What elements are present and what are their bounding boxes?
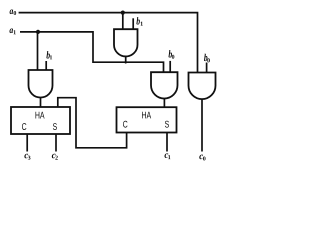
label c2: [52, 154, 58, 160]
label c0: [199, 155, 205, 161]
AND gate U2 (a0·b1): [114, 29, 138, 56]
half adder HA2 box: [117, 107, 177, 132]
wire a0 horizontal then down to far-right AND gate: [19, 13, 198, 73]
label b1 (left gate): [46, 51, 52, 59]
wire b1 stub into U2: [132, 18, 134, 29]
wire HA2 S output: [166, 133, 168, 152]
label b0 (right gate): [204, 54, 210, 63]
label c1: [165, 153, 171, 159]
wire b0 stub into U4: [206, 63, 208, 73]
AND gate U1 (a1·b1): [29, 70, 53, 98]
node T-junction: [125, 61, 127, 63]
wire HA1 S output: [55, 134, 57, 152]
wire HA1 C output: [26, 134, 28, 152]
wire U2 output down to routing line: [125, 56, 127, 63]
wire U3 output to HA2: [163, 99, 165, 108]
wire a1 branch down to U1 input: [37, 32, 39, 70]
node junction dot on a1 line: [36, 30, 40, 34]
half adder HA1 box: [11, 107, 70, 134]
wire U4 output to c0: [201, 99, 203, 151]
AND gate U4 (a0·b0): [189, 73, 216, 100]
label c3: [24, 154, 30, 160]
wire a1 horizontal, down, right, into U3 input: [20, 32, 164, 72]
AND gate U3 (a1·b0): [151, 72, 178, 98]
label a1: [9, 29, 15, 35]
label b0 (middle gate): [168, 50, 174, 59]
wire U1 output to HA1: [40, 98, 42, 108]
wire HA2 carry to HA1 input (routed under): [58, 98, 127, 148]
wire b1 stub into U1: [45, 61, 47, 70]
node junction dot on a0 line: [121, 11, 125, 15]
wire a0 branch down to U2 input: [122, 13, 124, 30]
label a0: [10, 10, 17, 16]
wire b0 stub into U3: [169, 61, 171, 72]
label b1 (top gate): [136, 17, 142, 25]
